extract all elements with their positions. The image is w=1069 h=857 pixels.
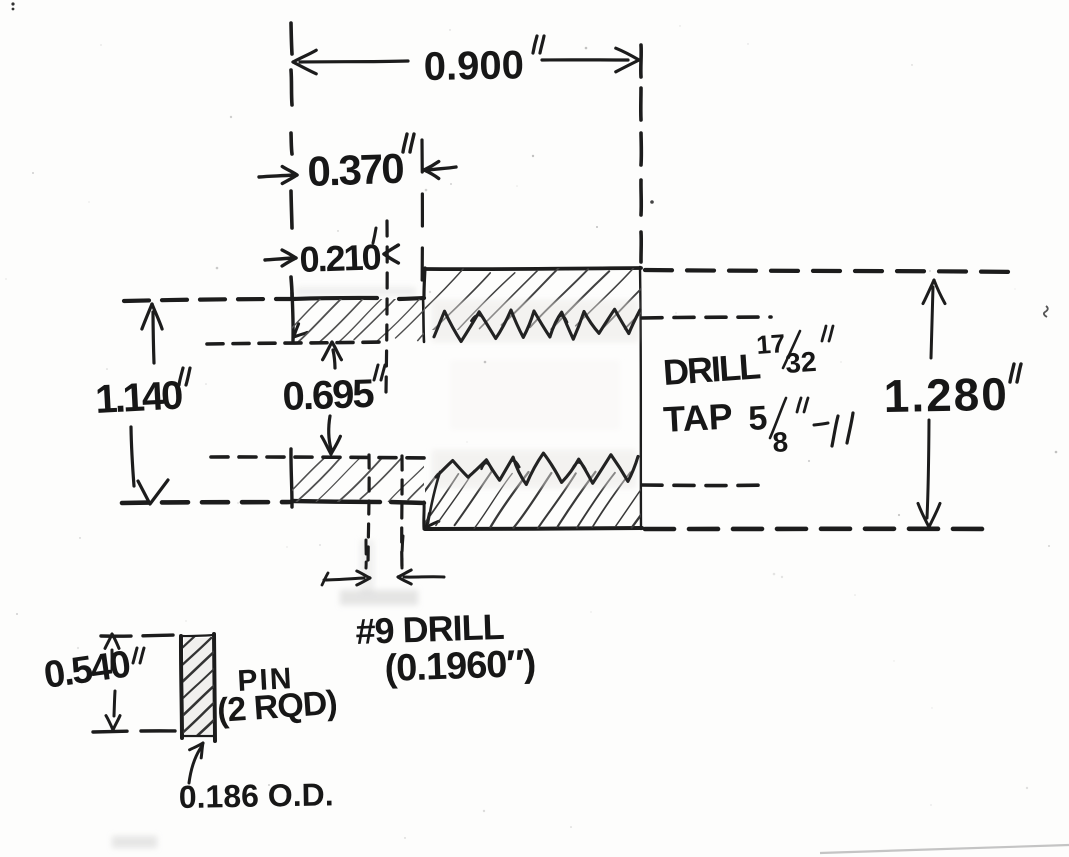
- svg-text:0.900: 0.900: [423, 43, 524, 89]
- svg-text:(0.1960″): (0.1960″): [384, 643, 536, 690]
- svg-text:0.370: 0.370: [307, 145, 404, 195]
- pin rectangle: [181, 636, 182, 738]
- thread zigzag: top: [434, 309, 640, 341]
- pencil tone behind threads: [432, 300, 638, 488]
- block left edge between flange top and bore: [423, 297, 424, 342]
- corner arrowhead at block bottom-left corner: [426, 513, 429, 527]
- flange (small step) outline: [293, 298, 377, 299]
- svg-text:0.186 O.D.: 0.186 O.D.: [178, 776, 333, 815]
- drill hole dashed vertical x=369 lower: [368, 455, 369, 565]
- svg-text:5: 5: [747, 399, 768, 438]
- paper speckles: [679, 25, 680, 26]
- dim 0.900: right extension dashed vertical x=641: [639, 45, 643, 77]
- dim 0.540: dashed ext lines: [101, 635, 176, 636]
- svg-text:TAP: TAP: [662, 395, 733, 440]
- svg-text:8: 8: [772, 426, 789, 458]
- dashed line: right of block, thread top level: [642, 317, 771, 318]
- leader arrow to 0.186 O.D.: [189, 746, 202, 783]
- svg-text:1.280: 1.280: [883, 368, 1009, 422]
- dim 0.370: right arrow: [428, 167, 456, 170]
- stray mark top right: [1044, 306, 1048, 317]
- eraser smudges: [112, 287, 620, 848]
- thread zigzag: bottom: [436, 453, 638, 484]
- hatching: flange top band: [275, 292, 463, 344]
- drill hole dashed vertical x=387 upper: [386, 221, 387, 392]
- dashed line: bottom flange top boundary: [211, 457, 430, 458]
- dashed line: right of block, top level: [645, 270, 1022, 272]
- svg-text:32: 32: [784, 346, 817, 379]
- main body outline: large threaded block: [424, 268, 641, 269]
- dim 0.695: down arrow: [329, 416, 331, 449]
- svg-text:0.210: 0.210: [299, 236, 381, 280]
- dim 0.210: left arrow: [265, 258, 292, 260]
- dashed line: bore top boundary (flange): [207, 342, 380, 344]
- drill hole dashed vertical x=402 lower: [400, 456, 404, 568]
- dim 1.280: lower arrow: [927, 420, 929, 518]
- svg-text:17: 17: [755, 328, 786, 360]
- hatching: block top band (above threads): [405, 267, 683, 331]
- svg-text:0.540: 0.540: [41, 643, 132, 697]
- #9 drill: left pointer arrow: [322, 573, 328, 585]
- dim 0.900: left extension dashed vertical x=291: [291, 23, 292, 54]
- svg-text:DRILL: DRILL: [662, 345, 762, 393]
- svg-text:0.695: 0.695: [282, 372, 375, 419]
- dim 1.280: upper arrow: [931, 287, 933, 358]
- #9 drill: right pointer arrow: [404, 575, 444, 578]
- faint diagonal bottom right: [820, 845, 1069, 853]
- dim 0.540: down arrow: [114, 691, 115, 716]
- dim 0.370: left arrow: [259, 175, 293, 177]
- svg-text:1.140: 1.140: [94, 374, 183, 422]
- dashed line: bottom-left, flange bottom level: [122, 502, 290, 503]
- pin hatching: [180, 616, 216, 650]
- dashed line: top-left, flange top level: [124, 299, 290, 301]
- dim 0.900: dimension line and arrows: [300, 61, 408, 62]
- #9 drill: dashed stubs below part: [364, 540, 367, 568]
- dim 1.140: lower arrow: [131, 427, 134, 486]
- dim 1.140: upper arrow: [153, 312, 154, 363]
- dim 0.540: up arrow: [111, 650, 114, 669]
- dim 0.695: up arrow: [333, 350, 335, 368]
- drill hole dashed vertical x=422 upper: [420, 140, 424, 295]
- hatching: flange bottom band: [280, 455, 452, 502]
- dashed line: right of block, thread bottom level: [642, 483, 769, 487]
- dim 0.210: right arrowhead: [384, 245, 398, 254]
- svg-text:(2 RQD): (2 RQD): [216, 684, 338, 730]
- dashed line: right of block, bottom level: [645, 526, 992, 531]
- corner arrowhead at flange inner corner: [294, 324, 299, 337]
- hatching: block bottom band (below threads): [400, 470, 670, 529]
- thread lead-in curve bottom-left: [428, 472, 440, 523]
